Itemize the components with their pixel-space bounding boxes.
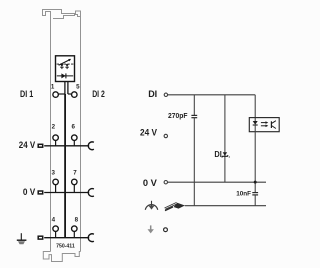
wire DI horizontal bbox=[168, 94, 255, 96]
svg-text:DI 1: DI 1 bbox=[20, 89, 33, 99]
svg-text:1: 1 bbox=[51, 83, 55, 90]
center signal wire bbox=[64, 94, 66, 238]
status LEDs arrow bbox=[59, 60, 70, 66]
svg-text:10nF: 10nF bbox=[236, 191, 251, 198]
stub pin6 bbox=[73, 140, 75, 146]
svg-text:750-411: 750-411 bbox=[56, 243, 75, 249]
wire pin1 to center bbox=[58, 93, 65, 95]
diode D3 bbox=[57, 75, 73, 77]
LED/status box U1 bbox=[56, 56, 75, 82]
node 24V terminal bbox=[164, 134, 167, 137]
svg-text:3: 3 bbox=[51, 170, 55, 177]
0V blade contact bbox=[38, 191, 43, 194]
svg-text:4: 4 bbox=[52, 217, 56, 224]
svg-text:0 V: 0 V bbox=[143, 178, 157, 188]
status LEDs dashed line bbox=[57, 63, 74, 65]
svg-text:0 V: 0 V bbox=[23, 187, 35, 197]
24V spring contact bbox=[88, 142, 94, 150]
LED D2 bbox=[65, 64, 68, 67]
module top latch inner step bbox=[53, 15, 81, 19]
svg-text:7: 7 bbox=[73, 170, 77, 177]
wire pin5 stub bbox=[68, 93, 72, 95]
svg-text:2: 2 bbox=[52, 124, 56, 131]
terminal 1 bbox=[53, 92, 59, 98]
stub pin2 bbox=[55, 140, 57, 146]
0V bus wire bbox=[44, 192, 89, 194]
legend shield clamp symbol bbox=[165, 202, 177, 208]
svg-text:DI: DI bbox=[148, 89, 157, 99]
module bottom foot profile bbox=[43, 252, 80, 262]
node DI terminal bbox=[164, 93, 167, 96]
stub pin8 bbox=[73, 231, 75, 238]
legend earth-in-circle symbol bbox=[145, 205, 157, 210]
terminal 4 bbox=[53, 226, 59, 232]
stub pin3 bbox=[55, 184, 57, 192]
earth bus wire bbox=[44, 237, 89, 239]
LED D1 bbox=[60, 64, 63, 67]
opto coupling arrows bbox=[261, 122, 266, 124]
svg-text:6: 6 bbox=[71, 124, 75, 131]
stub pin7 bbox=[73, 184, 75, 192]
wire stub from box right bbox=[67, 82, 69, 95]
opto LED bbox=[253, 121, 258, 125]
24V blade contact bbox=[38, 144, 43, 147]
optocoupler U2 box bbox=[249, 118, 279, 132]
svg-text:DI 2: DI 2 bbox=[92, 89, 105, 99]
24V bus wire bbox=[44, 145, 89, 147]
wire branch C1 upper bbox=[193, 95, 195, 116]
wire 0V horizontal bbox=[168, 181, 266, 183]
svg-text:24 V: 24 V bbox=[140, 128, 157, 138]
capacitor C2 10nF bbox=[252, 192, 258, 194]
svg-text:270pF: 270pF bbox=[168, 111, 188, 120]
suppressor diode on DI branch bbox=[223, 152, 227, 156]
terminal 8 bbox=[72, 226, 78, 232]
wire opto to 0V bbox=[254, 125, 256, 193]
earth blade contact bbox=[38, 236, 43, 239]
earth spring contact bbox=[88, 234, 94, 242]
wire chassis horizontal bbox=[185, 205, 266, 207]
wire stub from box left bbox=[64, 82, 66, 95]
wire branch C1 lower bbox=[193, 118, 195, 206]
svg-text:5: 5 bbox=[76, 83, 80, 90]
wire C2 to chassis bbox=[254, 195, 256, 206]
svg-text:8: 8 bbox=[75, 217, 79, 224]
terminal 3 bbox=[53, 179, 59, 185]
terminal 5 bbox=[72, 92, 78, 98]
module 750-411 housing outline bbox=[43, 10, 81, 252]
terminal 6 bbox=[72, 135, 78, 141]
legend small terminal circle bbox=[164, 228, 168, 232]
capacitor C1 270pF bbox=[191, 114, 197, 116]
stub pin4 bbox=[55, 231, 57, 238]
wire branch TVS upper bbox=[224, 95, 226, 182]
opto phototransistor bbox=[270, 121, 272, 128]
terminal 2 bbox=[53, 135, 59, 141]
terminal 7 bbox=[72, 179, 78, 185]
node 0V terminal bbox=[164, 181, 167, 184]
0V spring contact bbox=[88, 189, 94, 197]
svg-text:24 V: 24 V bbox=[19, 140, 35, 150]
svg-text:DI: DI bbox=[214, 150, 221, 159]
PE earth symbol bbox=[20, 233, 22, 240]
wire branch opto upper bbox=[254, 95, 256, 121]
junction dot on 0V bbox=[254, 181, 257, 184]
legend gray arrow bbox=[150, 225, 152, 229]
